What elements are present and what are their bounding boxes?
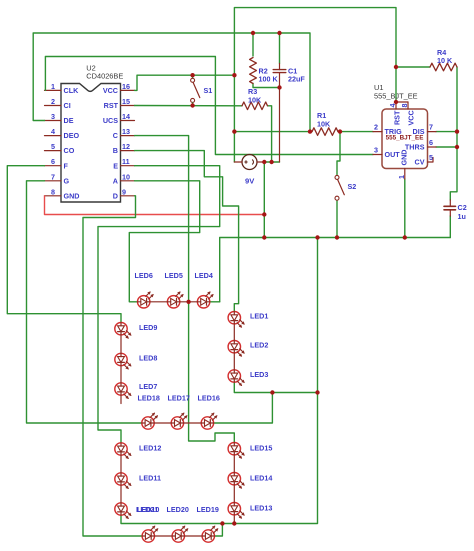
svg-text:1: 1 bbox=[51, 82, 55, 91]
wire DE net: U2 pin3 up left side to top rail bbox=[33, 33, 310, 132]
svg-text:LED17: LED17 bbox=[168, 394, 190, 403]
LED LED1 bbox=[228, 312, 240, 324]
svg-text:4: 4 bbox=[51, 127, 55, 136]
svg-text:LED16: LED16 bbox=[198, 394, 220, 403]
LED LED21 bbox=[142, 530, 154, 542]
LED LED11 bbox=[115, 473, 127, 485]
svg-text:DEO: DEO bbox=[64, 131, 80, 140]
wire x317 rail to bottom bbox=[121, 238, 318, 524]
svg-text:5: 5 bbox=[51, 142, 55, 151]
wire C net: U2 pin13 long vertical to LED15 segment bbox=[135, 136, 235, 443]
svg-text:F: F bbox=[64, 161, 69, 170]
wire LED3 bottom row bbox=[234, 382, 317, 392]
wire A net: U2 pin10 to LED6 top segment bbox=[129, 181, 199, 302]
svg-text:LED19: LED19 bbox=[197, 505, 219, 514]
LED LED18 bbox=[142, 417, 154, 429]
op-amp U1 555_BJT_EE timer bbox=[382, 109, 428, 169]
wire R2 bottom jog to C1 bbox=[253, 84, 280, 88]
svg-text:LED21: LED21 bbox=[136, 505, 158, 514]
svg-text:GND: GND bbox=[64, 191, 80, 200]
svg-text:555_BJT_EE: 555_BJT_EE bbox=[386, 135, 424, 142]
wire 555 DIS to x457 bbox=[436, 131, 457, 133]
LED LED2 bbox=[228, 341, 240, 353]
wire C2 bottom to ground rail bbox=[449, 216, 451, 238]
svg-text:B: B bbox=[113, 146, 118, 155]
svg-text:LED15: LED15 bbox=[250, 444, 272, 453]
wire CLK net: 555 OUT to U2 pin1 bbox=[45, 57, 373, 155]
wire S2 bottom lead bbox=[336, 201, 338, 238]
svg-text:22uF: 22uF bbox=[288, 75, 305, 84]
svg-text:LED18: LED18 bbox=[138, 394, 160, 403]
svg-text:CV: CV bbox=[415, 158, 425, 167]
svg-text:7: 7 bbox=[429, 123, 433, 132]
svg-text:10K: 10K bbox=[248, 96, 262, 105]
wire 9V+ rail up and across top to 555 RST bbox=[234, 8, 396, 162]
svg-text:LED2: LED2 bbox=[250, 341, 268, 350]
wire R1 row bbox=[234, 131, 312, 133]
svg-text:VCC: VCC bbox=[407, 110, 416, 125]
svg-text:OUT: OUT bbox=[385, 150, 401, 159]
svg-text:LED6: LED6 bbox=[135, 271, 153, 280]
svg-text:LED11: LED11 bbox=[139, 474, 161, 483]
wire C1 bottom rail down bbox=[279, 79, 281, 162]
LED LED10 bbox=[115, 503, 127, 515]
wire LED16 right to x272 bbox=[214, 393, 273, 424]
svg-text:C: C bbox=[113, 131, 118, 140]
svg-text:1: 1 bbox=[397, 175, 406, 179]
svg-text:10K: 10K bbox=[317, 120, 331, 129]
resistor R2 100K bbox=[250, 58, 257, 84]
svg-text:LED1: LED1 bbox=[250, 312, 268, 321]
svg-text:8: 8 bbox=[51, 187, 55, 196]
svg-text:LED7: LED7 bbox=[139, 382, 157, 391]
svg-text:CO: CO bbox=[64, 146, 75, 155]
wire R2 top lead bbox=[252, 33, 254, 56]
op-amp U2 CD4026BE counter IC bbox=[61, 84, 121, 203]
switch S2 bbox=[335, 175, 339, 179]
svg-text:CD4026BE: CD4026BE bbox=[86, 72, 123, 81]
capacitor C2 1u bbox=[444, 205, 456, 207]
svg-text:10 K: 10 K bbox=[437, 56, 453, 65]
wire x264 vertical 9V to ground rail bbox=[263, 162, 265, 238]
svg-text:S2: S2 bbox=[348, 182, 357, 191]
junction dots bbox=[190, 73, 194, 77]
battery V1 9V source bbox=[242, 155, 257, 170]
svg-text:6: 6 bbox=[51, 157, 55, 166]
wire 9V right side bbox=[264, 161, 279, 163]
svg-text:12: 12 bbox=[122, 142, 130, 151]
LED LED16 bbox=[201, 417, 213, 429]
svg-text:LED3: LED3 bbox=[250, 370, 268, 379]
LED LED9 bbox=[115, 323, 127, 335]
svg-text:LED20: LED20 bbox=[167, 505, 189, 514]
svg-text:1u: 1u bbox=[458, 212, 466, 221]
wire C1 top lead bbox=[279, 33, 281, 64]
wire RST net: U2 pin15 through S1 to R3 bbox=[135, 105, 243, 107]
wire VCC net: U2 pin16 to S1/9V rail bbox=[135, 75, 235, 90]
wire GND red: U2 pin8 to 9V- rail bbox=[45, 196, 265, 215]
resistor R4 10K bbox=[430, 63, 457, 71]
resistor R1 10K bbox=[312, 128, 338, 136]
LED LED19 bbox=[202, 530, 214, 542]
svg-text:2: 2 bbox=[374, 123, 378, 132]
LED LED6 bbox=[138, 296, 150, 308]
svg-text:LED13: LED13 bbox=[250, 504, 272, 513]
wire LED13 bottom lead bbox=[233, 515, 235, 524]
svg-text:C2: C2 bbox=[458, 203, 467, 212]
LED LED13 bbox=[228, 503, 240, 515]
wire R3 right lead down bbox=[268, 106, 272, 162]
wire D net: U2 pin9 down left to LED21 bottom segment bbox=[83, 196, 142, 536]
svg-text:UCS: UCS bbox=[103, 116, 118, 125]
LED LED20 bbox=[172, 530, 184, 542]
wire F net: U2 pin6 to LED9 string bbox=[7, 166, 121, 323]
svg-text:7: 7 bbox=[51, 172, 55, 181]
svg-text:14: 14 bbox=[122, 112, 130, 121]
svg-text:555_BJT_EE: 555_BJT_EE bbox=[374, 92, 418, 101]
svg-text:LED5: LED5 bbox=[165, 271, 183, 280]
svg-text:A: A bbox=[113, 176, 118, 185]
svg-text:CI: CI bbox=[64, 101, 71, 110]
svg-text:9: 9 bbox=[122, 187, 126, 196]
svg-text:D: D bbox=[113, 191, 118, 200]
svg-text:DE: DE bbox=[64, 116, 74, 125]
LED LED14 bbox=[228, 473, 240, 485]
wire LED19 right up to y523 bbox=[215, 524, 223, 537]
svg-text:RST: RST bbox=[393, 110, 402, 125]
svg-text:CLK: CLK bbox=[64, 86, 80, 95]
wire B net: U2 pin12 to LED1 segment bbox=[135, 151, 239, 312]
svg-text:RST: RST bbox=[104, 101, 119, 110]
wire 555 GND down bbox=[404, 179, 406, 238]
svg-text:9V: 9V bbox=[245, 177, 255, 186]
svg-text:10: 10 bbox=[122, 172, 130, 181]
svg-text:100 K: 100 K bbox=[259, 75, 279, 84]
svg-text:LED12: LED12 bbox=[139, 444, 161, 453]
svg-text:3: 3 bbox=[374, 146, 378, 155]
svg-text:VCC: VCC bbox=[103, 86, 118, 95]
svg-text:S1: S1 bbox=[204, 86, 213, 95]
LED LED4 bbox=[197, 296, 209, 308]
svg-text:2: 2 bbox=[51, 97, 55, 106]
switch S1 bbox=[191, 78, 195, 82]
svg-text:LED9: LED9 bbox=[139, 323, 157, 332]
svg-text:15: 15 bbox=[122, 97, 130, 106]
wire ground rail bbox=[220, 238, 451, 302]
LED LED17 bbox=[171, 417, 183, 429]
wire E net: U2 pin11 to LED12 segment bbox=[98, 166, 220, 443]
svg-text:11: 11 bbox=[122, 157, 130, 166]
wire R1 right to 555 TRIG bbox=[338, 131, 373, 133]
svg-text:5: 5 bbox=[429, 153, 433, 162]
LED LED15 bbox=[228, 443, 240, 455]
wire G net: U2 pin7 to LED18 middle segment bbox=[27, 181, 142, 423]
LED LED7 bbox=[115, 383, 127, 395]
resistor R3 10K bbox=[242, 102, 268, 110]
svg-text:GND: GND bbox=[400, 150, 409, 166]
svg-text:13: 13 bbox=[122, 127, 130, 136]
svg-text:3: 3 bbox=[51, 112, 55, 121]
LED LED5 bbox=[167, 296, 179, 308]
LED LED3 bbox=[228, 370, 240, 382]
wire LED4 right to rail bbox=[210, 301, 220, 303]
wire R4 left lead bbox=[396, 66, 430, 68]
svg-text:G: G bbox=[64, 176, 70, 185]
svg-text:LED14: LED14 bbox=[250, 474, 272, 483]
svg-text:LED8: LED8 bbox=[139, 354, 157, 363]
wire 555 THRS to x457 bbox=[436, 146, 457, 148]
wire R4 right down to 555 DIS/THRS and C2 bbox=[450, 67, 457, 200]
svg-text:6: 6 bbox=[429, 138, 433, 147]
wire LED string links bbox=[150, 301, 168, 303]
capacitor C1 22uF bbox=[273, 69, 286, 71]
LED LED8 bbox=[115, 353, 127, 365]
LED LED12 bbox=[115, 443, 127, 455]
svg-text:16: 16 bbox=[122, 82, 130, 91]
svg-text:LED4: LED4 bbox=[195, 271, 213, 280]
svg-text:8: 8 bbox=[400, 104, 409, 108]
wire S2 top lead bbox=[337, 132, 340, 175]
svg-text:E: E bbox=[113, 161, 118, 170]
